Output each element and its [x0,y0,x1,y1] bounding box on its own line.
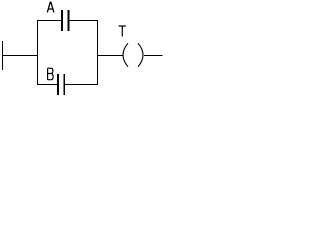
left power rail [2,41,3,70]
wire: contact B to branch right [65,84,98,85]
label A [47,2,54,13]
wire: top branch to contact A [37,20,61,21]
wire: branch right to coil T [97,55,123,56]
coil T (output coil) [123,43,143,67]
label B [48,68,54,80]
label T [119,26,126,37]
contact A (normally-open) [61,10,69,31]
wire: branch right vertical [97,20,98,85]
wire: branch left vertical [37,20,38,85]
wire: coil T to right [144,55,163,56]
contact B (normally-open) [57,74,65,95]
wire: rail to branch left [2,55,38,56]
wire: bottom branch to contact B [37,84,57,85]
wire: contact A to branch right [69,20,98,21]
